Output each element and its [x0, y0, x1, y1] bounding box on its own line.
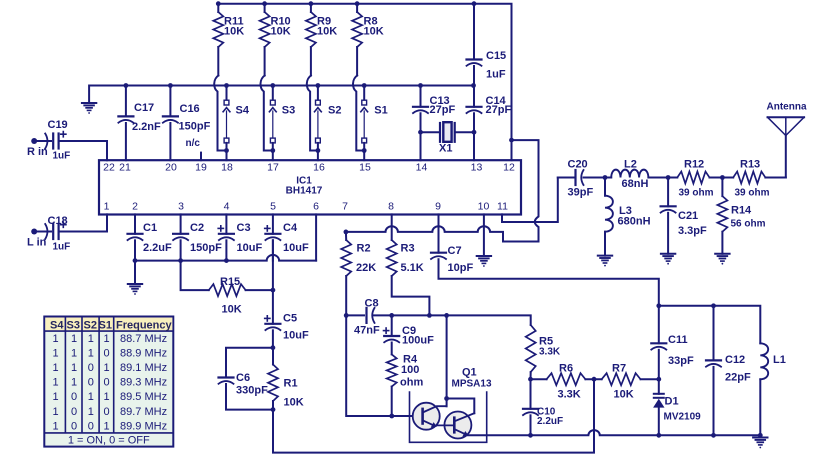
- wire R10 hop over ground bus to switch column: [261, 76, 273, 151]
- svg-text:MV2109: MV2109: [664, 412, 702, 423]
- table row 89.1 MHz: [52, 362, 167, 374]
- svg-text:1 = ON, 0 = OFF: 1 = ON, 0 = OFF: [68, 435, 150, 447]
- svg-text:L1: L1: [773, 354, 786, 366]
- svg-text:n/c: n/c: [186, 138, 201, 149]
- transistor Q1 second NPN: [437, 412, 474, 439]
- junction on VCC bus (R9): [309, 1, 314, 6]
- svg-text:10uF: 10uF: [283, 242, 309, 254]
- wire C11 top lead: [658, 306, 660, 344]
- svg-text:S1: S1: [374, 105, 387, 117]
- wire C18 to pin 1: [59, 214, 107, 231]
- node R in terminal: [31, 138, 37, 144]
- svg-text:1uF: 1uF: [53, 242, 71, 253]
- resistor R12: [677, 172, 709, 184]
- svg-text:1: 1: [104, 362, 110, 374]
- svg-text:R15: R15: [220, 276, 240, 288]
- resistor R1: [268, 348, 278, 410]
- svg-text:C12: C12: [725, 354, 745, 366]
- svg-text:10uF: 10uF: [237, 242, 263, 254]
- junction Q1 collector feed: [444, 313, 449, 318]
- wire C12 column: [713, 306, 715, 361]
- svg-text:C2: C2: [190, 222, 204, 234]
- resistor R2: [341, 232, 351, 276]
- svg-text:1: 1: [104, 333, 110, 345]
- svg-text:5.1K: 5.1K: [401, 262, 424, 274]
- svg-text:S2: S2: [328, 105, 341, 117]
- junction on ground bus: [168, 83, 173, 88]
- junction on ground bus: [270, 83, 275, 88]
- svg-text:2.2uF: 2.2uF: [143, 242, 172, 254]
- node pin12 junction: [509, 138, 514, 143]
- svg-text:1: 1: [71, 362, 77, 374]
- wire C21 top lead: [667, 178, 669, 207]
- svg-text:1: 1: [104, 201, 110, 213]
- wire C12 bottom: [713, 367, 715, 435]
- svg-text:89.1 MHz: 89.1 MHz: [120, 362, 167, 374]
- svg-text:100uF: 100uF: [402, 335, 434, 347]
- capacitor C11: [651, 343, 666, 349]
- wire C10 bottom: [530, 415, 532, 435]
- svg-text:2: 2: [132, 201, 138, 213]
- resistor R7: [602, 373, 641, 385]
- wire C8 to R5: [374, 315, 531, 325]
- svg-text:L in: L in: [27, 237, 47, 249]
- svg-text:7: 7: [342, 201, 348, 213]
- svg-text:C20: C20: [568, 159, 588, 171]
- svg-text:S1: S1: [99, 320, 112, 332]
- wire R13 leads: [722, 177, 785, 179]
- crystal X1: [421, 122, 475, 142]
- svg-text:0: 0: [71, 391, 77, 403]
- svg-text:10K: 10K: [271, 26, 291, 38]
- svg-text:R14: R14: [731, 205, 752, 217]
- svg-text:89.7 MHz: 89.7 MHz: [120, 406, 167, 418]
- svg-text:S2: S2: [84, 320, 97, 332]
- wire C10 top lead: [530, 379, 532, 409]
- svg-text:R6: R6: [559, 363, 573, 375]
- svg-text:R2: R2: [357, 243, 371, 255]
- wire pin5 column down to C5: [272, 240, 274, 323]
- svg-text:R in: R in: [27, 146, 48, 158]
- wire C5 bottom to node: [272, 330, 274, 347]
- junction C21/R12: [666, 175, 671, 180]
- capacitor C6: [219, 378, 234, 384]
- junction on VCC bus (R8): [355, 1, 360, 6]
- wire ground bus: [89, 86, 473, 104]
- junction pin 7 / R2: [344, 230, 349, 235]
- svg-text:C21: C21: [678, 210, 698, 222]
- svg-text:10uF: 10uF: [283, 330, 309, 342]
- frequency table: [44, 317, 173, 447]
- svg-text:Frequency: Frequency: [116, 320, 173, 332]
- wire C20 left lead: [558, 177, 576, 179]
- svg-text:150pF: 150pF: [190, 242, 222, 254]
- svg-text:22: 22: [103, 162, 115, 174]
- wire C20 to L2 node: [584, 177, 606, 179]
- svg-text:ohm: ohm: [400, 377, 423, 389]
- capacitor C21: [661, 206, 676, 212]
- switch S4: [223, 86, 230, 161]
- svg-text:BH1417: BH1417: [286, 186, 323, 197]
- svg-text:C11: C11: [668, 334, 688, 346]
- svg-text:3: 3: [178, 201, 184, 213]
- svg-text:19: 19: [195, 162, 207, 174]
- svg-text:0: 0: [88, 377, 94, 389]
- svg-text:C17: C17: [134, 102, 154, 114]
- svg-text:R7: R7: [612, 363, 626, 375]
- junction Q1 collectors: [444, 396, 449, 401]
- table row 88.7 MHz: [52, 333, 167, 345]
- svg-text:56 ohm: 56 ohm: [731, 219, 766, 230]
- ground (L3): [598, 256, 612, 267]
- wire pin 10 to ground: [483, 214, 485, 256]
- svg-text:10K: 10K: [364, 26, 384, 38]
- svg-text:1: 1: [52, 406, 58, 418]
- svg-text:4: 4: [224, 201, 230, 213]
- svg-text:X1: X1: [439, 143, 452, 155]
- ground (R14): [715, 254, 729, 265]
- junction on VCC bus (R10): [262, 1, 267, 6]
- wire R9 hop over ground bus to switch column: [307, 76, 318, 151]
- junction C3: [224, 258, 229, 263]
- svg-text:10pF: 10pF: [448, 262, 474, 274]
- svg-text:10K: 10K: [222, 304, 242, 316]
- resistor R9: [306, 4, 316, 76]
- svg-text:1: 1: [71, 333, 77, 345]
- wire L in lead: [34, 231, 51, 233]
- junction C2/R15: [178, 258, 183, 263]
- svg-text:0: 0: [71, 406, 77, 418]
- wire pin 11 to C20 line: [502, 178, 558, 223]
- svg-text:3.3K: 3.3K: [539, 347, 561, 358]
- wire L3 top lead: [604, 178, 606, 196]
- wire pin 9 column to C7: [438, 214, 440, 252]
- capacitor C4: [265, 226, 281, 240]
- transistor Q1 package outline: [410, 392, 487, 442]
- wire C19 to pin 22: [59, 141, 107, 160]
- junction R15/C4/C5: [271, 288, 276, 293]
- capacitor C14: [467, 107, 482, 113]
- junction on ground bus: [124, 83, 129, 88]
- svg-text:5: 5: [270, 201, 276, 213]
- svg-text:14: 14: [416, 162, 428, 174]
- capacitor C13: [413, 107, 428, 113]
- junction crystal left: [418, 130, 423, 135]
- wire pin7 bus with hops over pins 8,9,10 then to pin-12 node: [346, 140, 539, 241]
- wire pin 21 column: [125, 86, 127, 161]
- svg-text:89.3 MHz: 89.3 MHz: [120, 377, 167, 389]
- wire pin 20 column: [169, 86, 171, 161]
- svg-text:11: 11: [497, 201, 508, 213]
- resistor R10: [260, 4, 270, 76]
- junction crystal right: [472, 130, 477, 135]
- antenna: [768, 117, 805, 135]
- junction C9 top: [389, 313, 394, 318]
- wire R3 bottom to C8 node: [392, 276, 430, 315]
- svg-text:22K: 22K: [356, 262, 376, 274]
- capacitor C17: [118, 116, 133, 122]
- wire VCC top bus: [218, 4, 511, 140]
- wire R2 column to C8: [346, 314, 364, 316]
- junction L1 bottom / ground: [758, 433, 763, 438]
- junction C12 top: [711, 303, 716, 308]
- wire C2 bottom: [180, 240, 182, 260]
- capacitor C18 straight plate and plus: [57, 224, 59, 239]
- svg-text:1: 1: [88, 348, 94, 360]
- junction C1/ground: [133, 258, 138, 263]
- svg-text:C4: C4: [283, 222, 298, 234]
- svg-text:0: 0: [71, 420, 77, 432]
- wire pin 8 column to R3: [391, 214, 393, 240]
- transistor Q1 first NPN: [413, 403, 447, 430]
- svg-text:150pF: 150pF: [179, 121, 211, 133]
- wire R6 left lead: [531, 378, 547, 380]
- svg-text:R12: R12: [684, 159, 704, 171]
- svg-text:89.5 MHz: 89.5 MHz: [120, 391, 167, 403]
- ground (C1): [128, 284, 142, 295]
- svg-text:1: 1: [52, 377, 58, 389]
- svg-text:2.2uF: 2.2uF: [537, 416, 563, 427]
- wire R15 left lead: [181, 261, 209, 291]
- svg-text:1: 1: [52, 362, 58, 374]
- svg-text:27pF: 27pF: [430, 104, 456, 116]
- svg-text:R3: R3: [401, 243, 415, 255]
- wire C21 bottom to ground: [667, 213, 669, 254]
- wire pin 12 to junction: [511, 140, 513, 160]
- wire pin 19 n/c stub: [200, 153, 202, 161]
- capacitor C1: [128, 234, 143, 240]
- capacitor C19 (curved plate left): [45, 134, 53, 149]
- svg-text:C16: C16: [180, 103, 200, 115]
- junction R6/R7/lower bus: [592, 377, 597, 382]
- svg-text:C6: C6: [236, 372, 250, 384]
- capacitor C9: [384, 328, 400, 342]
- capacitor C20: [576, 170, 584, 185]
- svg-text:S3: S3: [282, 105, 295, 117]
- node L in terminal: [31, 229, 37, 235]
- svg-text:21: 21: [119, 162, 131, 174]
- svg-text:C8: C8: [365, 298, 379, 310]
- svg-text:C15: C15: [486, 50, 506, 62]
- resistor R6: [547, 373, 586, 385]
- wire R4 bottom to base line: [391, 387, 393, 417]
- svg-text:68nH: 68nH: [622, 178, 649, 190]
- junction tank top: [656, 303, 661, 308]
- wire C3 bottom: [225, 240, 227, 260]
- table row 89.7 MHz: [52, 406, 167, 418]
- svg-text:9: 9: [435, 201, 441, 213]
- resistor R13: [733, 172, 765, 184]
- svg-text:20: 20: [165, 162, 177, 174]
- svg-text:0: 0: [104, 406, 110, 418]
- svg-text:88.9 MHz: 88.9 MHz: [120, 348, 167, 360]
- wire C15/C14/pin13 column: [473, 4, 475, 161]
- svg-text:33pF: 33pF: [668, 355, 694, 367]
- svg-text:C19: C19: [48, 119, 68, 131]
- junction C5/R1/C6: [271, 345, 276, 350]
- capacitor C16: [163, 116, 178, 122]
- junction on VCC bus (R11): [216, 1, 221, 6]
- table row 88.9 MHz: [52, 348, 167, 360]
- svg-text:1uF: 1uF: [486, 69, 506, 81]
- junction R4 / base line: [389, 414, 394, 419]
- svg-text:1uF: 1uF: [53, 151, 71, 162]
- junction D1 bottom: [656, 433, 661, 438]
- wire C7 bottom to VCO tank: [439, 259, 659, 306]
- svg-text:1: 1: [104, 391, 110, 403]
- svg-text:17: 17: [267, 162, 279, 174]
- inductor L1: [760, 343, 768, 379]
- svg-text:C3: C3: [237, 222, 251, 234]
- wire R7 right lead: [641, 378, 659, 380]
- resistor R3: [387, 240, 397, 276]
- svg-text:16: 16: [313, 162, 325, 174]
- svg-text:680nH: 680nH: [618, 216, 651, 228]
- wire R8 hop over ground bus to switch column: [353, 76, 364, 151]
- svg-text:Q1: Q1: [462, 367, 477, 379]
- junction on VCC bus (C15): [472, 1, 477, 6]
- svg-text:1: 1: [88, 391, 94, 403]
- svg-text:1: 1: [52, 348, 58, 360]
- resistor R15: [209, 284, 246, 296]
- wire C1 to ground: [134, 261, 136, 284]
- junction on ground bus: [362, 83, 367, 88]
- inductor L2: [611, 170, 648, 178]
- svg-text:6: 6: [313, 201, 319, 213]
- resistor R8: [352, 4, 362, 76]
- svg-text:10K: 10K: [614, 389, 634, 401]
- wire R11 hop over ground bus to switch column: [214, 76, 226, 151]
- junction C10 bottom: [528, 433, 533, 438]
- svg-text:10K: 10K: [317, 26, 337, 38]
- svg-text:MPSA13: MPSA13: [452, 379, 492, 390]
- svg-text:D1: D1: [665, 396, 679, 408]
- wire antenna feeder: [785, 136, 787, 178]
- capacitor C19 straight plate and plus: [57, 134, 59, 149]
- svg-text:0: 0: [104, 348, 110, 360]
- resistor R11: [213, 4, 223, 76]
- IC IC1 BH1417 body: [99, 160, 521, 214]
- ground (pin 10): [477, 256, 491, 267]
- svg-text:S3: S3: [67, 320, 80, 332]
- wire R6 to R7: [585, 378, 601, 380]
- junction R3 feed: [427, 313, 432, 318]
- svg-text:39 ohm: 39 ohm: [679, 188, 714, 199]
- svg-text:Antenna: Antenna: [767, 102, 807, 113]
- junction R2 column / C8 line: [344, 313, 349, 318]
- wire pin 6 column: [315, 214, 317, 260]
- junction C11/D1/R7: [656, 377, 661, 382]
- ground (top left): [82, 103, 96, 114]
- junction on ground bus: [224, 83, 229, 88]
- switch S1: [361, 86, 368, 161]
- svg-text:1: 1: [71, 377, 77, 389]
- varactor diode D1: [653, 394, 664, 436]
- wire L2 left stub: [605, 177, 611, 179]
- svg-text:1: 1: [52, 420, 58, 432]
- svg-text:1: 1: [52, 333, 58, 345]
- table row 89.3 MHz: [52, 377, 167, 389]
- svg-text:8: 8: [388, 201, 394, 213]
- ground (right bottom): [753, 438, 767, 449]
- junction on ground bus: [418, 83, 423, 88]
- capacitor C15: [467, 60, 482, 66]
- capacitor C5: [265, 316, 281, 330]
- wire C1 bottom: [134, 240, 136, 260]
- svg-text:C18: C18: [48, 215, 68, 227]
- svg-text:3.3K: 3.3K: [558, 389, 581, 401]
- svg-text:R13: R13: [740, 159, 760, 171]
- capacitor C8: [367, 308, 375, 323]
- wire pin column for C1: [134, 214, 136, 233]
- svg-text:1: 1: [104, 420, 110, 432]
- wire L3 bottom to ground: [604, 232, 606, 256]
- svg-text:C1: C1: [143, 222, 157, 234]
- wire C9 top lead: [391, 315, 393, 336]
- svg-text:2.2nF: 2.2nF: [132, 121, 161, 133]
- svg-text:10K: 10K: [284, 397, 304, 409]
- ground (C21): [661, 254, 675, 265]
- junction R12/R13/R14: [720, 175, 725, 180]
- svg-text:89.9 MHz: 89.9 MHz: [120, 420, 167, 432]
- capacitor C18 (curved plate left): [45, 224, 53, 239]
- junction on ground bus: [316, 83, 321, 88]
- svg-text:39pF: 39pF: [568, 187, 594, 199]
- junction R5/R6/C10: [528, 377, 533, 382]
- svg-text:1: 1: [88, 406, 94, 418]
- svg-text:S4: S4: [236, 105, 250, 117]
- wire C9 to R4: [391, 343, 393, 355]
- wire pin 14 column (C13/X1): [420, 86, 422, 161]
- wire L2 to C21 node: [648, 177, 668, 179]
- svg-text:27pF: 27pF: [486, 104, 512, 116]
- svg-text:0: 0: [104, 377, 110, 389]
- wire C11 bottom to D1 node: [658, 350, 660, 394]
- wire R1 bottom to lower ground bus: [273, 380, 594, 453]
- svg-text:1: 1: [71, 348, 77, 360]
- svg-text:C5: C5: [283, 313, 297, 325]
- svg-text:1: 1: [52, 391, 58, 403]
- svg-text:22pF: 22pF: [725, 372, 751, 384]
- capacitor C2: [173, 234, 188, 240]
- svg-text:L2: L2: [624, 159, 637, 171]
- wire tank top line: [659, 306, 761, 344]
- wire collector tie: [447, 399, 475, 414]
- wire emitter bus with hop over lower-bus riser: [466, 430, 760, 435]
- svg-text:R1: R1: [284, 378, 298, 390]
- table row 89.5 MHz: [52, 391, 167, 403]
- svg-text:10: 10: [478, 201, 490, 213]
- capacitor C3: [218, 226, 234, 240]
- wire R2 bottom to Q1 base line: [346, 276, 422, 416]
- resistor R14: [717, 178, 727, 254]
- switch S3: [269, 86, 276, 161]
- svg-text:0: 0: [88, 362, 94, 374]
- junction C20/L2/L3: [603, 175, 608, 180]
- wire to C6 top: [226, 348, 273, 378]
- capacitor C10: [523, 409, 538, 415]
- wire L1 bottom: [759, 379, 761, 435]
- svg-text:S4: S4: [50, 320, 64, 332]
- svg-text:18: 18: [221, 162, 233, 174]
- svg-text:C7: C7: [448, 245, 462, 257]
- resistor R4: [387, 354, 397, 386]
- wire R12 leads: [668, 177, 722, 179]
- junction R1/C6: [271, 407, 276, 412]
- svg-text:88.7 MHz: 88.7 MHz: [120, 333, 167, 345]
- wire pin column for C2: [180, 214, 182, 233]
- svg-text:330pF: 330pF: [236, 385, 268, 397]
